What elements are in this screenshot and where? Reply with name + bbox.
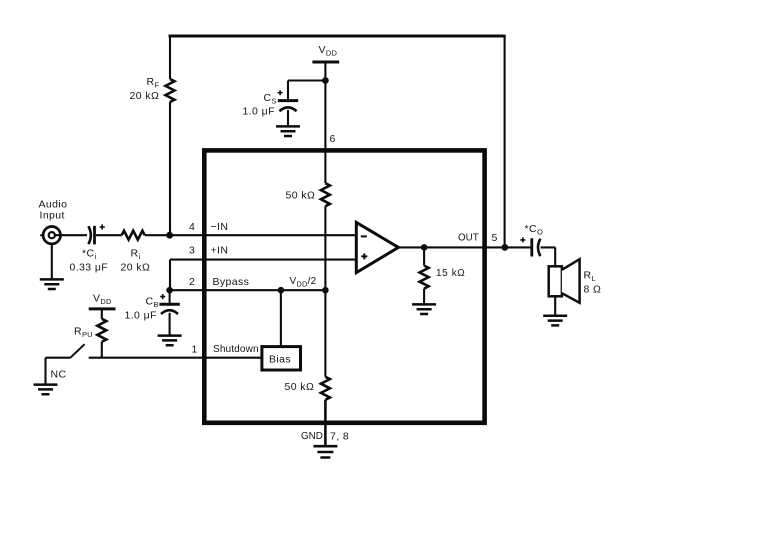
connector J1 audio input jack bbox=[40, 227, 60, 244]
svg-text:0.33 μF: 0.33 μF bbox=[70, 262, 109, 274]
svg-text:GND: GND bbox=[301, 431, 323, 442]
label RL bbox=[584, 270, 602, 296]
node: pin5/feedback junction bbox=[501, 244, 508, 251]
svg-text:50 kΩ: 50 kΩ bbox=[286, 190, 316, 202]
pin 1 label and Shutdown bbox=[192, 344, 259, 356]
wire: op-amp output to node 5 and Co bbox=[398, 246, 530, 248]
capacitor CB bypass 1.0uF bbox=[159, 290, 179, 314]
pin 2 label and Bypass bbox=[189, 276, 317, 289]
speaker RL 8 ohm bbox=[549, 259, 580, 303]
resistor RPU pull-up bbox=[97, 319, 106, 342]
IC U1 package outline bbox=[204, 150, 484, 422]
resistor 50k lower bias divider bbox=[321, 377, 330, 400]
svg-text:6: 6 bbox=[330, 133, 336, 145]
svg-text:1: 1 bbox=[192, 344, 198, 356]
svg-text:VDD/2: VDD/2 bbox=[290, 276, 317, 289]
svg-text:−IN: −IN bbox=[211, 221, 229, 233]
wire: Bias box up to Vdd/2 rail bbox=[280, 290, 282, 346]
ground under Cb bbox=[158, 336, 182, 346]
svg-text:50 kΩ: 50 kΩ bbox=[285, 381, 315, 393]
label RF bbox=[130, 76, 160, 102]
svg-text:+IN: +IN bbox=[211, 245, 229, 257]
wire: VDD bar down to junction bbox=[324, 62, 326, 81]
block Bias bbox=[262, 347, 301, 370]
resistor RF (20k feedback) bbox=[166, 79, 175, 102]
label CO bbox=[525, 223, 544, 237]
svg-text:3: 3 bbox=[189, 245, 195, 257]
wire: Rf bottom down to input node bbox=[169, 102, 171, 235]
svg-text:*Ci: *Ci bbox=[82, 248, 96, 262]
wire: junction left to Cs bbox=[288, 81, 325, 101]
pin 6 label bbox=[330, 133, 336, 145]
wire: Vdd bar to Rpu bbox=[101, 309, 103, 319]
svg-text:Bypass: Bypass bbox=[213, 276, 250, 288]
ground under jack bbox=[40, 279, 64, 289]
ground under 15k bbox=[412, 304, 436, 314]
node: bypass left junction bbox=[166, 287, 173, 294]
svg-text:20 kΩ: 20 kΩ bbox=[130, 90, 160, 102]
svg-text:*CO: *CO bbox=[525, 223, 544, 237]
wire: VDD junction down through pin 6 into IC bbox=[324, 81, 326, 184]
capacitor CS supply bypass 1.0uF bbox=[278, 90, 299, 111]
power VDD shutdown pull-up symbol bbox=[89, 307, 116, 310]
svg-text:2: 2 bbox=[189, 276, 195, 288]
resistor 50k upper bias divider bbox=[321, 183, 330, 206]
wire: Ci to Ri bbox=[96, 234, 122, 236]
svg-text:7, 8: 7, 8 bbox=[330, 431, 349, 443]
svg-text:1.0 μF: 1.0 μF bbox=[125, 310, 157, 322]
svg-text:1.0 μF: 1.0 μF bbox=[243, 106, 275, 118]
node: output/15k junction bbox=[421, 244, 428, 251]
svg-text:Shutdown: Shutdown bbox=[213, 344, 259, 355]
wire: jack down to ground bbox=[51, 244, 53, 279]
label CI bbox=[70, 248, 109, 274]
label Bias bbox=[269, 354, 291, 366]
svg-text:4: 4 bbox=[189, 221, 195, 233]
ground main bbox=[313, 446, 337, 457]
label 15k bbox=[436, 268, 465, 279]
power VDD top symbol bbox=[312, 61, 339, 64]
label CB bbox=[125, 296, 159, 322]
wire: jack to Ci bbox=[55, 234, 87, 236]
wire: NC drop to ground bbox=[44, 358, 46, 384]
svg-text:RPU: RPU bbox=[74, 326, 93, 340]
wire: +IN line from op-amp out through box to left drop bbox=[170, 260, 356, 291]
label audio input bbox=[39, 199, 68, 222]
svg-text:15 kΩ: 15 kΩ bbox=[436, 268, 465, 279]
wire: left feedback vertical (x=170) top rail to Rf bbox=[169, 36, 171, 79]
node: bias tap junction bbox=[278, 287, 285, 294]
switch S1 shutdown bbox=[46, 344, 85, 358]
label 50k lower bbox=[285, 381, 315, 393]
capacitor CO output coupling bbox=[520, 237, 540, 256]
wire: Cb to ground bbox=[169, 313, 171, 335]
svg-text:Ri: Ri bbox=[131, 248, 141, 262]
svg-text:5: 5 bbox=[492, 232, 498, 244]
node: Vdd/2 junction bbox=[322, 287, 329, 294]
label RI bbox=[121, 248, 151, 274]
label CS bbox=[243, 92, 277, 118]
ground under speaker bbox=[543, 316, 567, 326]
ground under NC bbox=[34, 385, 58, 395]
svg-text:CB: CB bbox=[146, 296, 159, 310]
label RPU bbox=[74, 326, 93, 340]
wire: lower 50k through pins 7,8 to ground bbox=[324, 400, 327, 446]
capacitor CI 0.33uF input coupling bbox=[88, 224, 104, 244]
label OUT and pin 5 bbox=[458, 232, 498, 244]
wire: Co to speaker bbox=[541, 247, 556, 266]
label VDD top bbox=[319, 44, 338, 58]
wire: Vdd/2 node down to lower 50k bbox=[324, 290, 326, 377]
wire: shutdown line from switch to Bias box bbox=[89, 357, 262, 359]
wire: Ri to node to -IN pin into op-amp bbox=[145, 234, 357, 236]
resistor 15k output load bbox=[420, 247, 429, 303]
op-amp U1 triangle bbox=[356, 222, 398, 272]
label GND 7, 8 bbox=[301, 431, 349, 443]
wire: speaker to ground bbox=[554, 296, 556, 315]
wire: top feedback rail from Rf top to output drop bbox=[169, 35, 506, 38]
svg-text:Bias: Bias bbox=[269, 354, 291, 366]
ground under Cs bbox=[276, 126, 300, 136]
svg-text:VDD: VDD bbox=[93, 293, 112, 307]
svg-text:Input: Input bbox=[40, 210, 65, 222]
wire: right feedback vertical from top rail down to node 5 bbox=[504, 36, 506, 247]
svg-text:RL: RL bbox=[584, 270, 596, 284]
svg-text:NC: NC bbox=[51, 369, 67, 381]
wire: Cs to ground bbox=[287, 110, 289, 126]
label 50k upper bbox=[286, 190, 316, 202]
wire: 50k upper down to Vdd/2 node bbox=[324, 206, 326, 290]
svg-text:8 Ω: 8 Ω bbox=[584, 284, 602, 296]
node: input summing node (junction dot) bbox=[166, 232, 173, 239]
pin 4 label and -IN bbox=[189, 221, 228, 233]
svg-text:VDD: VDD bbox=[319, 44, 338, 58]
pin 3 label and +IN bbox=[189, 245, 228, 257]
wire: Rpu down to shutdown line bbox=[101, 342, 103, 358]
svg-text:20 kΩ: 20 kΩ bbox=[121, 262, 151, 274]
label NC bbox=[51, 369, 67, 381]
svg-text:CS: CS bbox=[264, 92, 277, 106]
node: VDD junction dot bbox=[322, 77, 329, 84]
svg-text:OUT: OUT bbox=[458, 233, 479, 244]
label VDD shutdown bbox=[93, 293, 112, 307]
wire: bypass pin 2 line to Vdd/2 node bbox=[170, 289, 325, 291]
svg-text:RF: RF bbox=[147, 76, 160, 90]
resistor RI (20k input) bbox=[122, 231, 145, 240]
